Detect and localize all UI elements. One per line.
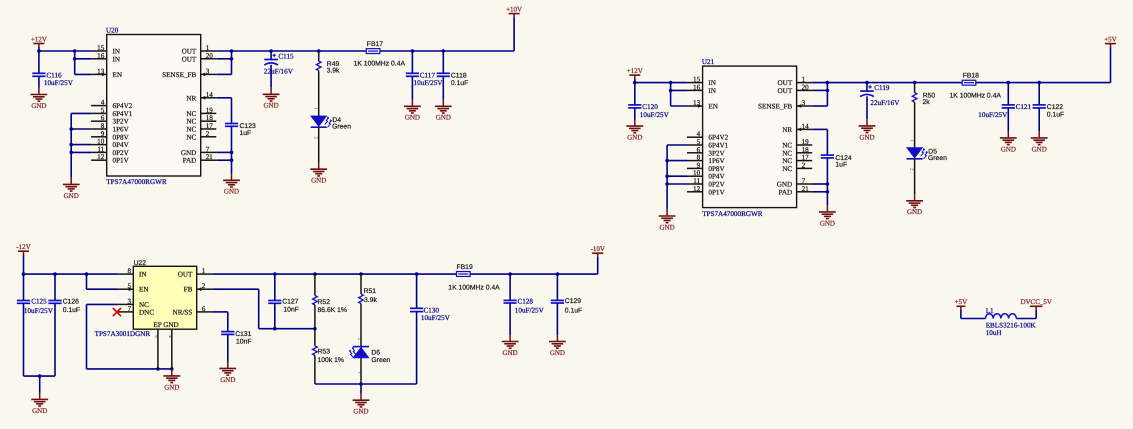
- svg-text:3: 3: [206, 67, 210, 75]
- svg-text:PAD: PAD: [183, 157, 197, 165]
- svg-text:1uF: 1uF: [240, 130, 252, 137]
- wire to pin 13 EN: [75, 73, 91, 75]
- svg-text:PAD: PAD: [779, 188, 793, 196]
- svg-text:C127: C127: [282, 298, 298, 305]
- svg-text:7: 7: [128, 305, 132, 313]
- ground (C129): [549, 335, 566, 357]
- node junction C119: [865, 81, 869, 85]
- node junction C130 top: [415, 272, 419, 276]
- wire pin21 to column: [216, 159, 231, 161]
- wire input rail to U22 IN: [24, 273, 118, 275]
- node junction R52 top: [313, 272, 317, 276]
- svg-text:18: 18: [802, 146, 810, 154]
- wire riser to pin16 and EN: [74, 51, 76, 74]
- wire inductor to DVCC_5V: [1016, 318, 1036, 320]
- ground (U20 left pins): [63, 178, 80, 200]
- inductor L1 EBLS3216-100K 10uH: [986, 314, 1017, 319]
- svg-text:9: 9: [101, 130, 105, 138]
- svg-text:1P6V: 1P6V: [113, 126, 130, 134]
- ground (C116): [31, 88, 48, 110]
- svg-text:GND: GND: [264, 102, 279, 110]
- wire up to +10V: [513, 17, 515, 51]
- wire to ground: [39, 376, 41, 393]
- resistor R51 3.9k: [360, 274, 362, 294]
- svg-text:17: 17: [802, 154, 810, 162]
- U22 pin 7 DNC: [118, 311, 134, 313]
- wire FB19 to -10V rail: [470, 273, 598, 275]
- svg-text:1: 1: [206, 44, 210, 52]
- svg-text:16: 16: [693, 83, 701, 91]
- wire NR/SS pin6 to C131: [212, 311, 228, 313]
- svg-text:C115: C115: [278, 53, 294, 61]
- resistor R52 86.6K 1%: [314, 274, 316, 295]
- svg-text:22uF/16V: 22uF/16V: [870, 99, 900, 107]
- U21 pin 20 OUT: [797, 89, 813, 91]
- svg-text:2: 2: [206, 130, 210, 138]
- svg-text:U22: U22: [134, 260, 147, 267]
- capacitor C128 10uF/25V: [509, 274, 511, 300]
- svg-text:21: 21: [802, 185, 810, 193]
- svg-text:1K 100MHz 0.4A: 1K 100MHz 0.4A: [950, 92, 1002, 99]
- svg-text:0P2V: 0P2V: [113, 149, 130, 157]
- U20 pin 9 0P8V: [91, 136, 107, 138]
- node junction R52 bottom: [313, 327, 317, 331]
- svg-text:3.9k: 3.9k: [327, 68, 340, 75]
- wire to inductor: [961, 318, 986, 320]
- svg-text:15: 15: [693, 76, 701, 84]
- node junction pin10 bus: [665, 174, 669, 178]
- node junction +12V/C116: [37, 49, 41, 53]
- svg-text:GND: GND: [31, 102, 46, 110]
- svg-text:GND: GND: [405, 114, 420, 122]
- svg-text:GND: GND: [627, 134, 642, 142]
- U20 pin 12 0P1V: [91, 159, 107, 161]
- svg-text:R52: R52: [318, 299, 331, 306]
- U21 pin 12 0P1V: [687, 191, 703, 193]
- svg-text:GND: GND: [503, 349, 518, 357]
- node junction IN2/EN riser: [669, 81, 673, 85]
- U20 pin 19 NC: [201, 112, 217, 114]
- node junction pin7: [826, 182, 830, 186]
- svg-text:U20: U20: [106, 27, 119, 35]
- svg-text:0P8V: 0P8V: [708, 165, 725, 173]
- power port -10V: [591, 245, 605, 257]
- U21 pin 19 NC: [797, 144, 813, 146]
- U20 pin 10 0P4V: [91, 144, 107, 146]
- capacitor C122 0.1uF: [1038, 83, 1040, 105]
- svg-text:3: 3: [802, 99, 806, 107]
- svg-text:C116: C116: [46, 71, 62, 79]
- svg-text:GND: GND: [353, 408, 368, 416]
- svg-text:7: 7: [802, 177, 806, 185]
- wire riser pin20/SENSE_FB: [231, 51, 233, 74]
- svg-text:GND: GND: [181, 149, 196, 157]
- svg-text:12: 12: [97, 153, 105, 161]
- svg-text:14: 14: [802, 122, 810, 130]
- svg-text:2: 2: [802, 161, 806, 169]
- wire FB18 to +5V rail: [976, 82, 1111, 84]
- svg-text:2k: 2k: [923, 99, 931, 106]
- wire OUT rail of U22: [212, 273, 456, 275]
- U20 pin 18 NC: [201, 120, 217, 122]
- svg-text:FB18: FB18: [963, 73, 979, 80]
- ground (U21 left pins): [659, 209, 676, 231]
- svg-text:GND: GND: [1032, 145, 1047, 153]
- ground (C117): [404, 100, 421, 122]
- wire U20 left pins to GND bus: [71, 112, 91, 114]
- U21 pin 14 NR: [797, 128, 813, 130]
- capacitor C124 1uF: [821, 155, 834, 158]
- capacitor C131 10nF: [221, 332, 234, 335]
- svg-text:NC: NC: [782, 142, 792, 150]
- svg-text:6P4V2: 6P4V2: [113, 102, 133, 110]
- node junction C117: [411, 49, 415, 53]
- svg-text:OUT: OUT: [182, 55, 197, 63]
- svg-text:L1: L1: [986, 307, 994, 315]
- svg-text:IN: IN: [113, 55, 121, 63]
- svg-text:17: 17: [206, 122, 214, 130]
- wire C124 to GND pins: [826, 158, 828, 205]
- svg-text:5: 5: [697, 138, 701, 146]
- power port DVCC_5V: [1020, 298, 1052, 310]
- svg-text:10: 10: [693, 169, 701, 177]
- node junction D6 bottom: [359, 382, 363, 386]
- node junction pin4: [170, 367, 174, 371]
- svg-text:DVCC_5V: DVCC_5V: [1020, 298, 1052, 306]
- U22 pin 9 EP: [157, 329, 159, 369]
- capacitor C127 10nF: [274, 274, 276, 300]
- wire +12V to input rail: [38, 47, 40, 51]
- capacitor C120 10uF/25V: [634, 83, 636, 105]
- svg-text:3P2V: 3P2V: [113, 118, 130, 126]
- ferrite bead FB19 1K 100MHz 0.4A: [457, 272, 471, 277]
- svg-text:10uF/25V: 10uF/25V: [421, 314, 451, 322]
- ferrite bead FB18 1K 100MHz 0.4A: [962, 80, 976, 85]
- svg-text:7: 7: [206, 145, 210, 153]
- svg-text:TPS7A47000RGWR: TPS7A47000RGWR: [106, 178, 167, 186]
- svg-text:OUT: OUT: [182, 48, 197, 56]
- node junction C118: [442, 49, 446, 53]
- node junction R49: [317, 49, 321, 53]
- node junction pin16: [73, 57, 77, 61]
- svg-text:12: 12: [693, 185, 701, 193]
- svg-text:10uH: 10uH: [986, 329, 1002, 337]
- node junction pin21: [826, 190, 830, 194]
- svg-text:15: 15: [97, 44, 105, 52]
- ground (C121): [1000, 131, 1017, 153]
- capacitor C116 10uF/25V: [38, 51, 40, 73]
- svg-text:GND: GND: [64, 192, 79, 200]
- svg-text:NC: NC: [186, 126, 196, 134]
- node junction C122: [1037, 81, 1041, 85]
- resistor R50 2k: [914, 83, 916, 93]
- svg-text:14: 14: [206, 91, 214, 99]
- power port +5V: [1104, 35, 1117, 47]
- node junction pin11 bus: [665, 182, 669, 186]
- U21 pin 10 0P4V: [687, 175, 703, 177]
- U20 pin 5 6P4V1: [91, 112, 107, 114]
- svg-text:Green: Green: [332, 123, 351, 130]
- node junction pin11 bus: [69, 151, 73, 155]
- svg-text:NC: NC: [186, 133, 196, 141]
- resistor R49 3.9k: [318, 51, 320, 61]
- U20 pin 15 IN: [91, 50, 107, 52]
- U22 pin 5 EN: [118, 288, 134, 290]
- svg-text:IN: IN: [139, 271, 147, 279]
- svg-text:+12V: +12V: [31, 35, 47, 43]
- U22 pin 2 FB: [197, 288, 213, 290]
- wire C131 to ground: [227, 334, 229, 362]
- wire bottom ground rail: [315, 383, 417, 385]
- wire pin7 to column: [812, 183, 827, 185]
- svg-text:2: 2: [202, 282, 206, 290]
- svg-text:10uF/25V: 10uF/25V: [640, 111, 670, 119]
- wire pin7 to column: [216, 151, 231, 153]
- U20 pin 21 PAD: [201, 159, 217, 161]
- svg-text:GND: GND: [1001, 145, 1016, 153]
- U21 pin 16 IN: [687, 89, 703, 91]
- wire OUT rail of U21: [812, 82, 962, 84]
- wire to pin 13 EN: [671, 105, 687, 107]
- svg-text:8: 8: [128, 267, 132, 275]
- svg-text:TPS7A47000RGWR: TPS7A47000RGWR: [702, 210, 763, 218]
- svg-text:10uF/25V: 10uF/25V: [44, 79, 74, 87]
- svg-text:+5V: +5V: [1104, 35, 1117, 43]
- svg-text:4: 4: [101, 99, 105, 107]
- wire input rail to U20 IN pins: [39, 50, 91, 52]
- svg-text:1P6V: 1P6V: [708, 157, 725, 165]
- svg-text:GND: GND: [550, 349, 565, 357]
- svg-text:OUT: OUT: [178, 271, 193, 279]
- svg-text:0P4V: 0P4V: [708, 173, 725, 181]
- svg-text:NC: NC: [186, 110, 196, 118]
- svg-text:GND: GND: [32, 407, 47, 415]
- svg-text:6: 6: [697, 146, 701, 154]
- U20 pin 3 SENSE_FB: [201, 73, 217, 75]
- svg-text:C129: C129: [565, 298, 581, 305]
- wire up to +5V: [1110, 47, 1112, 82]
- U21 pin 4 6P4V2: [687, 136, 703, 138]
- svg-text:NR/SS: NR/SS: [173, 308, 193, 316]
- capacitor C118 0.1uF: [442, 51, 444, 73]
- U20 pin 4 6P4V2: [91, 105, 107, 107]
- svg-text:C120: C120: [642, 103, 658, 111]
- svg-text:16: 16: [97, 52, 105, 60]
- svg-text:GND: GND: [660, 223, 675, 231]
- svg-text:1K 100MHz 0.4A: 1K 100MHz 0.4A: [448, 285, 500, 292]
- U21 pin 13 EN: [687, 105, 703, 107]
- U21 pin 1 OUT: [797, 82, 813, 84]
- capacitor C119 22uF/16V polarized: [866, 83, 868, 92]
- svg-text:0P2V: 0P2V: [708, 181, 725, 189]
- svg-text:5: 5: [101, 106, 105, 114]
- wire -12V to rail: [23, 255, 25, 274]
- U21 pin 5 6P4V1: [687, 144, 703, 146]
- U20 pin 14 NR: [201, 97, 217, 99]
- wire C123 to GND pins: [231, 126, 233, 173]
- power port +12V (U20 input): [31, 35, 47, 47]
- svg-text:D6: D6: [371, 349, 380, 356]
- node junction C128: [508, 272, 512, 276]
- svg-text:FB: FB: [184, 286, 193, 294]
- svg-text:9: 9: [697, 161, 701, 169]
- svg-text:TPS7A3001DGNR: TPS7A3001DGNR: [95, 330, 151, 338]
- IC U20 TPS7A47000RGWR body: [107, 35, 201, 177]
- ground (C119): [859, 119, 876, 141]
- svg-text:U21: U21: [702, 58, 715, 66]
- svg-text:SENSE_FB: SENSE_FB: [758, 103, 792, 111]
- U20 pin 1 OUT: [201, 50, 217, 52]
- ground (divider): [353, 394, 370, 416]
- svg-text:20: 20: [206, 52, 214, 60]
- ground (D4): [310, 163, 327, 185]
- U20 pin 6 3P2V: [91, 120, 107, 122]
- svg-text:EN: EN: [113, 71, 123, 79]
- U21 pin 15 IN: [687, 82, 703, 84]
- capacitor C121 10uF/25V: [1007, 83, 1009, 105]
- U20 pin 7 GND: [201, 151, 217, 153]
- svg-text:3.9k: 3.9k: [364, 297, 377, 304]
- svg-text:0P1V: 0P1V: [708, 188, 725, 196]
- svg-text:R51: R51: [364, 288, 377, 295]
- power port +12V (U21 input): [627, 67, 643, 79]
- wire OUT rail of U20: [216, 50, 366, 52]
- svg-text:C131: C131: [235, 331, 251, 338]
- IC U21 TPS7A47000RGWR body: [703, 66, 797, 208]
- U21 pin 8 1P6V: [687, 160, 703, 162]
- U21 pin 2 NC: [797, 167, 813, 169]
- svg-text:GND: GND: [220, 376, 235, 384]
- svg-text:EN: EN: [139, 286, 149, 294]
- U22 pin 1 OUT: [197, 273, 213, 275]
- U22 pin 8 IN: [118, 273, 134, 275]
- ground (U22 EP): [163, 369, 180, 391]
- ground (C122): [1031, 131, 1048, 153]
- svg-text:-12V: -12V: [16, 243, 30, 251]
- svg-text:10uF/25V: 10uF/25V: [515, 307, 545, 315]
- node junction C127 top: [273, 272, 277, 276]
- svg-text:+5V: +5V: [955, 298, 968, 306]
- svg-text:11: 11: [97, 145, 104, 153]
- svg-text:20: 20: [802, 83, 810, 91]
- svg-text:OUT: OUT: [778, 79, 793, 87]
- node junction pin20: [230, 57, 234, 61]
- svg-text:100k 1%: 100k 1%: [318, 357, 344, 364]
- capacitor C129 0.1uF: [556, 274, 558, 300]
- svg-text:C122: C122: [1047, 104, 1063, 111]
- svg-text:1: 1: [802, 76, 806, 84]
- svg-text:SENSE_FB: SENSE_FB: [162, 71, 196, 79]
- svg-text:6: 6: [101, 114, 105, 122]
- node junction C115: [269, 49, 273, 53]
- wire +5V down: [960, 310, 962, 319]
- svg-text:NC: NC: [186, 118, 196, 126]
- U20 pin 2 NC: [201, 136, 217, 138]
- node junction C127 bottom: [273, 327, 277, 331]
- U22 pin 3 NC: [118, 303, 134, 305]
- wire up to -10V: [597, 257, 599, 274]
- svg-text:0P8V: 0P8V: [113, 133, 130, 141]
- node junction C121: [1007, 81, 1011, 85]
- svg-text:10uF/25V: 10uF/25V: [978, 111, 1008, 119]
- node junction pin10 bus: [69, 143, 73, 147]
- U21 pin 3 SENSE_FB: [797, 105, 813, 107]
- ground (C118): [435, 100, 452, 122]
- svg-text:11: 11: [693, 177, 700, 185]
- wire NR to C124: [812, 128, 827, 130]
- svg-text:1uF: 1uF: [835, 162, 847, 169]
- resistor R53 100k 1%: [314, 329, 316, 346]
- wire D6 to bottom rail: [360, 358, 362, 384]
- svg-text:C125: C125: [31, 298, 47, 306]
- svg-text:NR: NR: [782, 126, 792, 134]
- svg-text:C119: C119: [874, 84, 890, 92]
- capacitor C123 1uF: [225, 124, 238, 127]
- U22 pin 6 NR/SS: [197, 311, 213, 313]
- svg-text:OUT: OUT: [778, 87, 793, 95]
- node junction OUT riser: [230, 49, 234, 53]
- svg-text:8: 8: [101, 122, 105, 130]
- wire input rail to U21 IN pins: [635, 82, 687, 84]
- svg-text:FB19: FB19: [457, 264, 473, 271]
- ground (C131): [219, 362, 236, 384]
- svg-text:18: 18: [206, 114, 214, 122]
- svg-text:6: 6: [202, 305, 206, 313]
- svg-text:0.1uF: 0.1uF: [1047, 112, 1064, 119]
- svg-text:0P4V: 0P4V: [113, 141, 130, 149]
- node junction +12V/C120: [633, 81, 637, 85]
- capacitor C117 10uF/25V: [411, 51, 413, 73]
- svg-text:C128: C128: [518, 297, 534, 305]
- capacitor C126 0.1uF: [54, 274, 56, 300]
- svg-text:+12V: +12V: [627, 67, 643, 75]
- wire C125/C126 bottoms: [24, 375, 56, 377]
- ground (C120): [626, 120, 643, 142]
- node junction -12V/C125: [22, 272, 26, 276]
- node junction pin20: [826, 89, 830, 93]
- svg-text:6P4V2: 6P4V2: [708, 134, 728, 142]
- svg-text:GND: GND: [436, 114, 451, 122]
- svg-text:0P1V: 0P1V: [113, 157, 130, 165]
- svg-text:GND: GND: [907, 208, 922, 216]
- U20 pin 8 1P6V: [91, 128, 107, 130]
- power port -12V: [16, 243, 30, 255]
- U21 pin 9 0P8V: [687, 167, 703, 169]
- U20 pin 13 EN: [91, 73, 107, 75]
- svg-text:19: 19: [206, 106, 214, 114]
- node junction pin9: [156, 367, 160, 371]
- wire pin21 to column: [812, 191, 827, 193]
- svg-text:GND: GND: [859, 133, 874, 141]
- ferrite bead FB17 1K 100MHz 0.4A: [366, 49, 380, 54]
- ground (C124/PAD): [819, 205, 836, 227]
- node junction pin7: [230, 151, 234, 155]
- svg-text:10nF: 10nF: [283, 307, 299, 314]
- svg-text:0.1uF: 0.1uF: [63, 307, 80, 314]
- svg-text:Green: Green: [928, 155, 947, 162]
- U21 pin 6 3P2V: [687, 152, 703, 154]
- svg-text:8: 8: [697, 154, 701, 162]
- U21 pin 11 0P2V: [687, 183, 703, 185]
- wire riser pin20/SENSE_FB: [826, 83, 828, 106]
- no-connect X on pin 7 DNC: [113, 308, 121, 316]
- svg-text:19: 19: [802, 138, 810, 146]
- wire to ground D6: [360, 384, 362, 394]
- svg-text:1: 1: [202, 267, 206, 275]
- U22 pin 4 GND: [171, 329, 173, 369]
- wire to pin 16: [75, 58, 91, 60]
- svg-text:C126: C126: [63, 299, 79, 306]
